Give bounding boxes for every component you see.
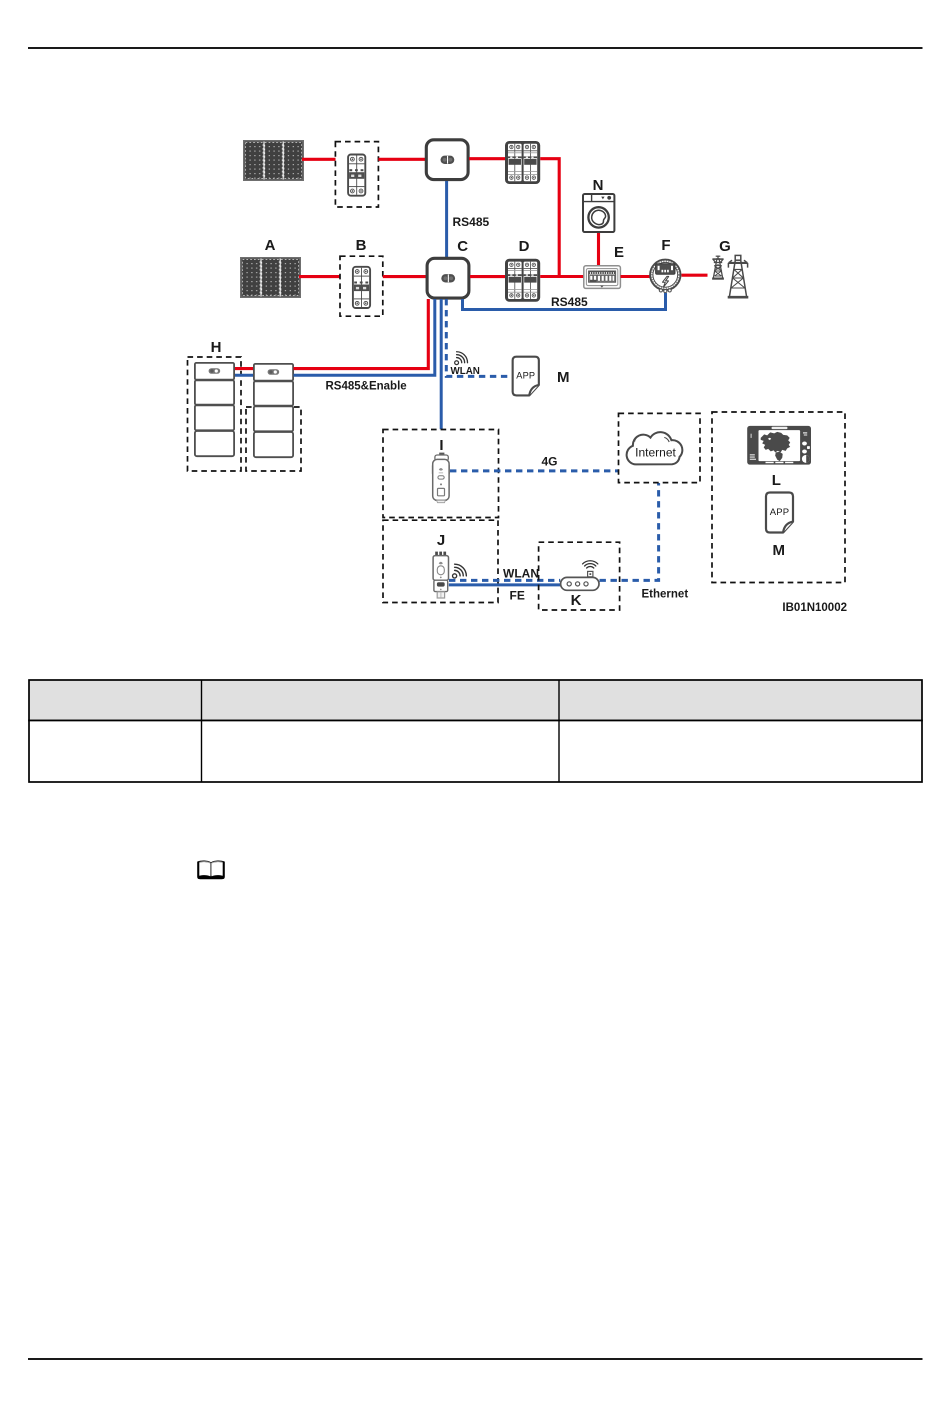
- wire Ethernet dashed router to internet: [600, 483, 659, 580]
- battery stack 1: [195, 363, 234, 456]
- WLAN-FE dongle J: [433, 552, 448, 598]
- svg-text:K: K: [571, 592, 582, 609]
- wire AC breaker 1 to AC bus junction: [540, 159, 559, 277]
- AC breaker D: [506, 260, 539, 301]
- bottom rule: [28, 1358, 923, 1360]
- internet dashed box: [619, 413, 701, 482]
- wire PV A to DC switch B: [299, 275, 340, 278]
- wire distribution box E to meter F: [621, 275, 651, 278]
- svg-text:F: F: [661, 237, 670, 254]
- internet cloud: [627, 432, 683, 464]
- wire FE dongle J to router: [449, 583, 561, 586]
- wire DC switch B to inverter C: [383, 275, 426, 278]
- svg-text:J: J: [437, 532, 445, 549]
- router K: [561, 577, 599, 590]
- wire RS485 inverter1 to inverter2: [445, 181, 448, 258]
- smart dongle I (4G): [432, 453, 450, 503]
- DC switch breaker B: [353, 267, 370, 308]
- WLAN wifi icon (inverter): [450, 350, 470, 370]
- monitoring screen L: [747, 426, 811, 465]
- DC switch dashed box 1: [335, 142, 378, 207]
- svg-text:A: A: [265, 237, 276, 254]
- battery expansion dashed box: [246, 407, 301, 471]
- top rule: [28, 47, 923, 49]
- inverter 1: [426, 140, 468, 180]
- wire 4G dashed dongle to internet: [450, 469, 618, 472]
- wire meter F to grid G: [682, 274, 708, 277]
- svg-text:M: M: [557, 369, 570, 386]
- svg-text:RS485&Enable: RS485&Enable: [326, 381, 407, 393]
- dongle dashed box I: [383, 430, 499, 518]
- power meter F: [650, 260, 680, 293]
- svg-text:RS485: RS485: [453, 215, 490, 229]
- wire washing machine to distribution box: [597, 233, 600, 266]
- svg-text:Internet: Internet: [635, 446, 676, 460]
- inverter C: [427, 258, 469, 298]
- AC breaker 1 (D top): [506, 142, 539, 183]
- wire inverter 1 to AC breaker 1: [469, 157, 506, 160]
- wire battery power red: [235, 299, 428, 369]
- wire PV1 to DC switch 1: [302, 158, 336, 161]
- wire WLAN dashed inverter to APP: [446, 299, 510, 376]
- battery stack 2: [254, 364, 293, 457]
- svg-text:B: B: [356, 237, 367, 254]
- note book icon: [197, 860, 225, 879]
- svg-text:C: C: [457, 238, 468, 255]
- svg-text:WLAN: WLAN: [503, 567, 539, 581]
- wire battery RS485 blue: [235, 299, 435, 375]
- wire WLAN dashed dongle J to router: [449, 579, 560, 582]
- svg-text:WLAN: WLAN: [451, 366, 480, 377]
- battery dashed box H: [188, 357, 242, 471]
- management system dashed box: [712, 412, 845, 583]
- wire DC switch 1 to inverter 1: [378, 158, 425, 161]
- svg-text:L: L: [772, 472, 781, 489]
- svg-text:FE: FE: [510, 589, 525, 603]
- wifi icon dongle J: [447, 562, 469, 584]
- wifi antenna router K: [583, 561, 598, 577]
- svg-text:N: N: [593, 177, 604, 194]
- svg-text:RS485: RS485: [551, 295, 588, 309]
- DC switch breaker 1: [348, 155, 365, 196]
- dongle dashed box J: [383, 520, 498, 602]
- svg-text:Ethernet: Ethernet: [642, 589, 689, 601]
- svg-text:E: E: [614, 244, 624, 261]
- svg-text:I: I: [439, 437, 443, 454]
- svg-text:H: H: [211, 339, 222, 356]
- svg-text:IB01N10002: IB01N10002: [782, 602, 847, 614]
- router dashed box K: [539, 542, 620, 610]
- wire AC breaker D to distribution box E: [540, 275, 583, 278]
- washing machine N: [583, 194, 614, 232]
- svg-text:G: G: [719, 238, 731, 255]
- svg-text:4G: 4G: [542, 455, 558, 469]
- svg-text:M: M: [773, 542, 786, 559]
- APP icon M (remote): [766, 493, 793, 533]
- table frame: [29, 680, 922, 782]
- wire inverter C to AC breaker D: [470, 275, 506, 278]
- DC switch dashed box B: [340, 256, 383, 316]
- grid towers G: [712, 255, 748, 297]
- APP icon M (local): [513, 357, 539, 396]
- wire RS485 meter F to inverter C: [463, 293, 666, 310]
- PV string 1: [244, 141, 303, 180]
- svg-text:D: D: [519, 238, 530, 255]
- PV string A: [241, 258, 300, 297]
- wire inverter C to dongle I: [440, 299, 443, 429]
- distribution box E: [584, 266, 621, 289]
